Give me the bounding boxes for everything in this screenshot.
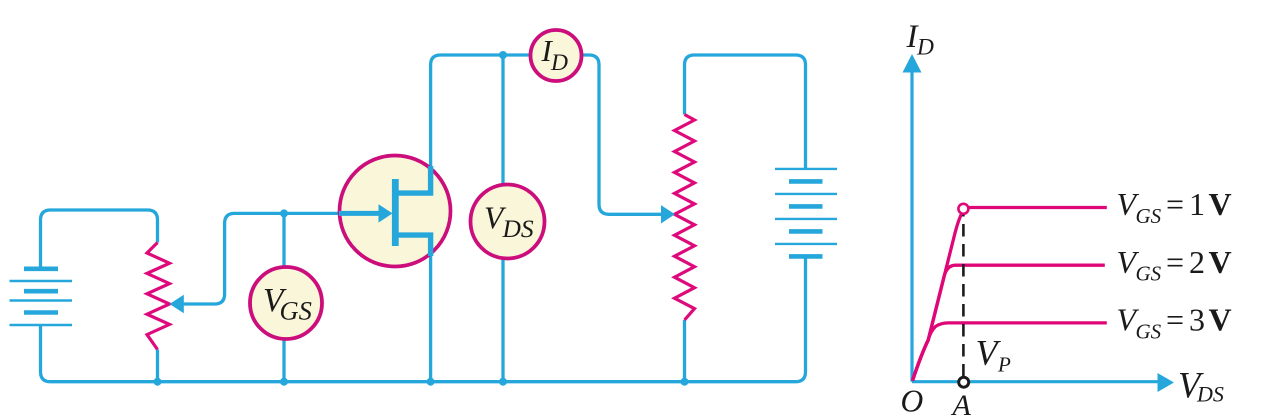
svg-text:O: O <box>901 384 924 419</box>
svg-text:2: 2 <box>1189 244 1205 280</box>
svg-text:V: V <box>1209 186 1232 222</box>
svg-text:D: D <box>916 34 934 60</box>
svg-text:GS: GS <box>1136 204 1162 228</box>
svg-text:D: D <box>550 50 568 76</box>
svg-text:V: V <box>1209 302 1232 338</box>
svg-text:=: = <box>1166 302 1184 338</box>
svg-text:V: V <box>1209 244 1232 280</box>
svg-text:DS: DS <box>502 214 534 243</box>
svg-text:A: A <box>951 389 972 419</box>
svg-text:GS: GS <box>1136 319 1162 343</box>
svg-text:GS: GS <box>280 296 312 326</box>
svg-text:1: 1 <box>1189 186 1205 222</box>
svg-text:=: = <box>1166 186 1184 222</box>
svg-text:3: 3 <box>1189 302 1205 338</box>
svg-text:GS: GS <box>1136 262 1162 286</box>
svg-text:DS: DS <box>1196 382 1224 407</box>
svg-text:=: = <box>1166 244 1184 280</box>
svg-text:P: P <box>997 353 1011 377</box>
